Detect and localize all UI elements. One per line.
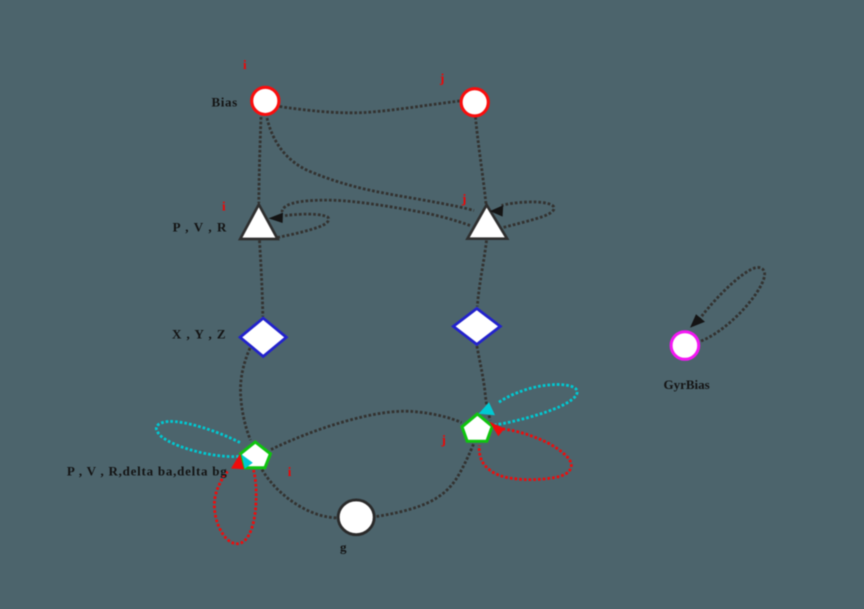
svg-text:i: i (243, 57, 247, 72)
svg-text:Bias: Bias (212, 94, 238, 109)
svg-text:P , V , R: P , V , R (173, 220, 228, 235)
svg-text:i: i (222, 199, 226, 214)
svg-text:j: j (461, 191, 466, 206)
svg-text:i: i (288, 464, 292, 479)
svg-text:j: j (439, 71, 444, 86)
svg-text:g: g (340, 540, 347, 555)
svg-text:P , V , R,delta ba,delta bg: P , V , R,delta ba,delta bg (67, 464, 228, 479)
svg-text:X , Y , Z: X , Y , Z (172, 326, 227, 341)
svg-text:j: j (441, 432, 446, 447)
svg-text:GyrBias: GyrBias (664, 377, 710, 392)
